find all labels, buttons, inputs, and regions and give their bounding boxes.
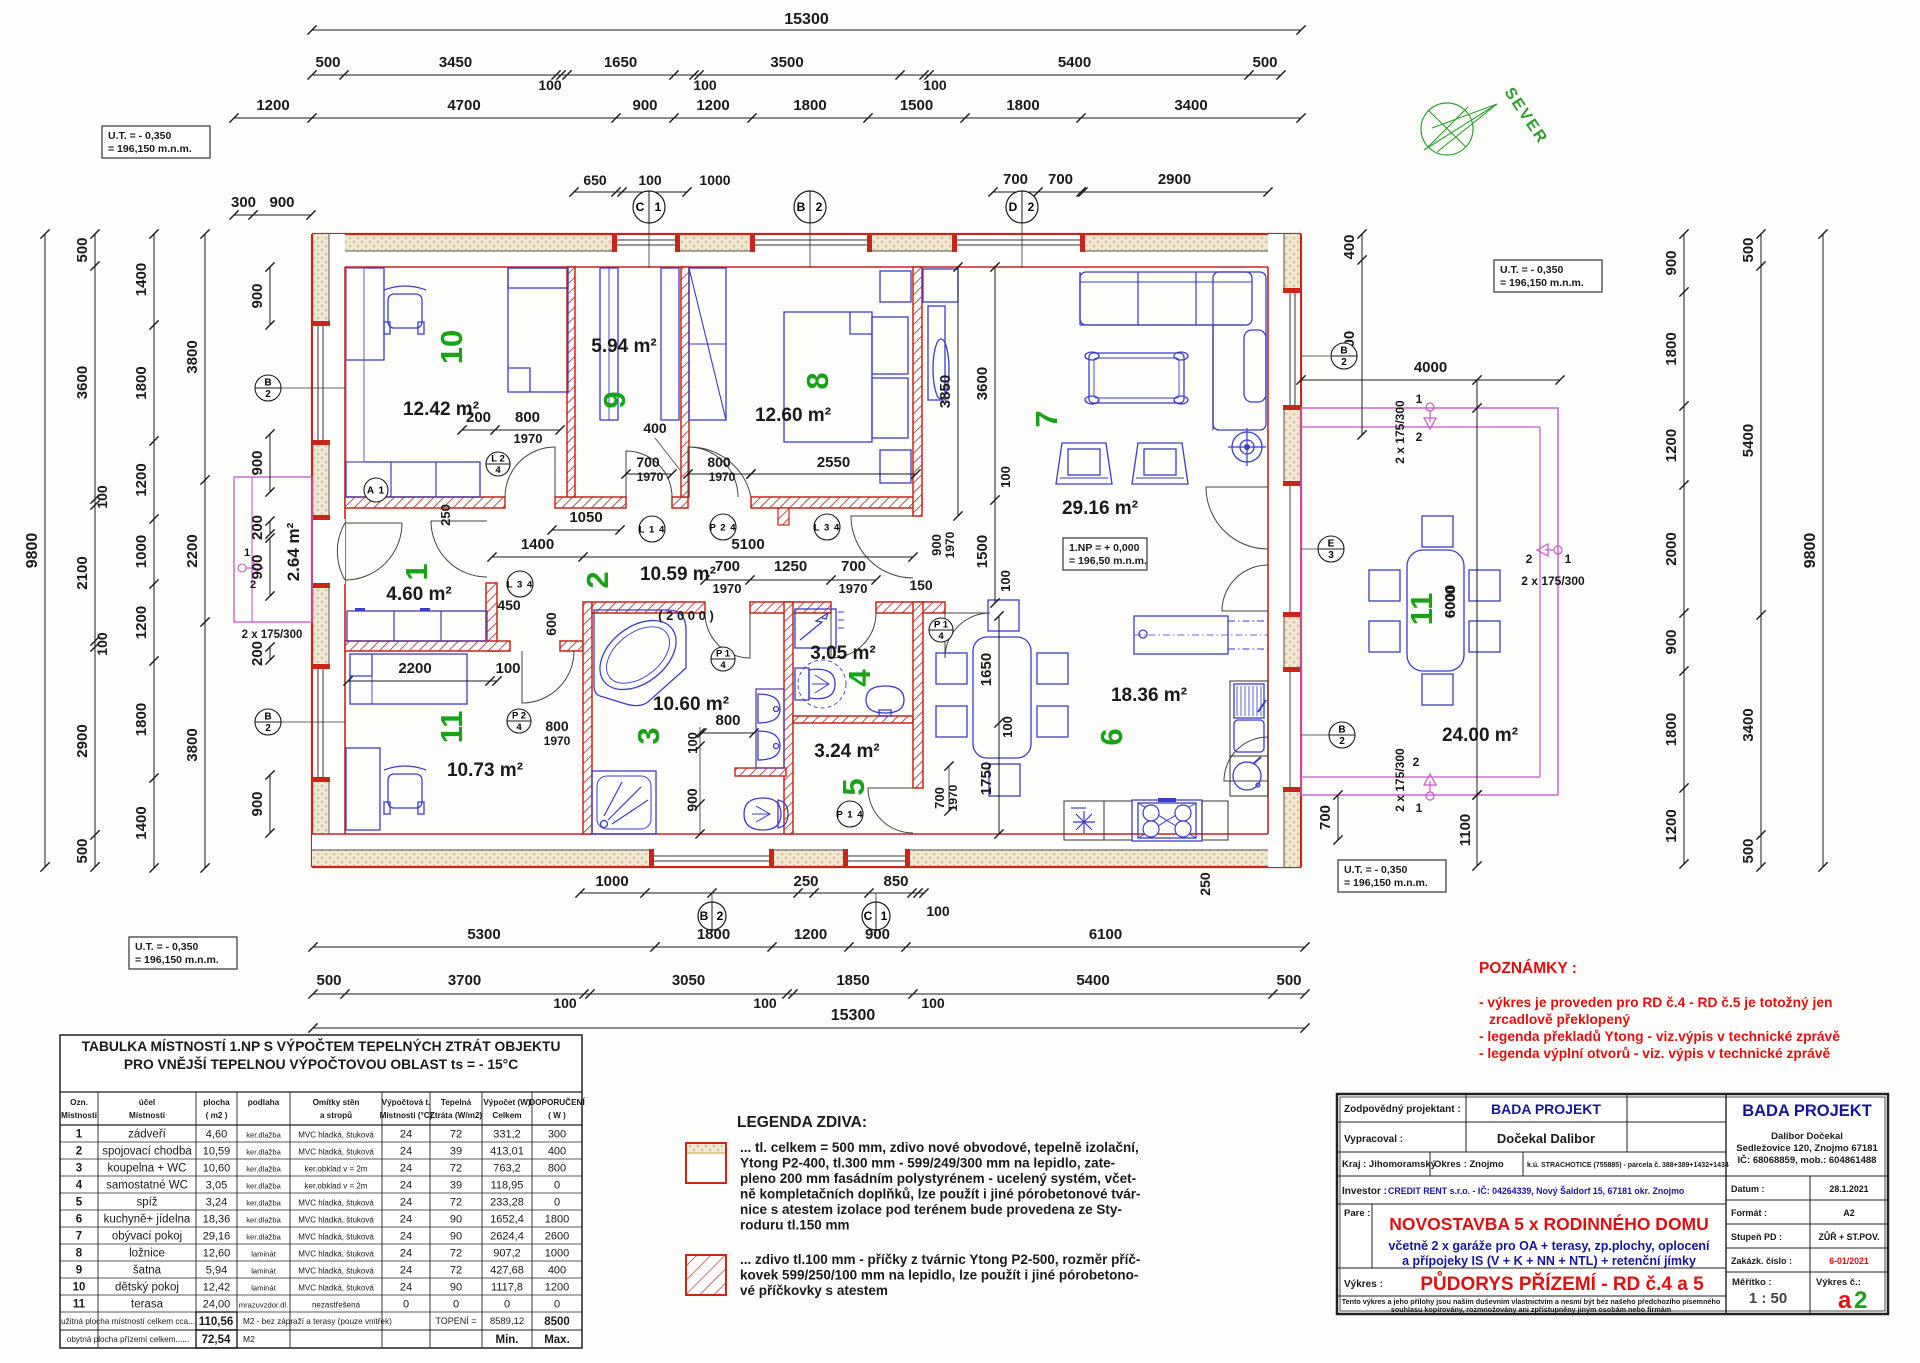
svg-text:100: 100 (94, 485, 110, 509)
svg-text:900: 900 (929, 534, 944, 556)
door/type marker circles (364, 478, 388, 502)
svg-text:= 196,150 m.n.m.: = 196,150 m.n.m. (1344, 877, 1428, 889)
svg-text:700: 700 (1003, 171, 1028, 188)
svg-text:Ozn.: Ozn. (70, 1098, 88, 1107)
svg-text:4: 4 (720, 660, 726, 671)
svg-text:B: B (1338, 725, 1345, 736)
svg-text:10: 10 (73, 1282, 86, 1294)
svg-text:obytná plocha přízemí celkem.: obytná plocha přízemí celkem...... (67, 1335, 189, 1344)
svg-text:laminát: laminát (251, 1250, 276, 1259)
svg-text:900: 900 (249, 450, 266, 475)
svg-text:28.1.2021: 28.1.2021 (1829, 1184, 1868, 1194)
svg-text:6-01/2021: 6-01/2021 (1829, 1256, 1869, 1266)
svg-text:nezastřešená: nezastřešená (312, 1301, 361, 1310)
svg-text:1500: 1500 (974, 535, 991, 568)
svg-text:a: a (1838, 1287, 1852, 1314)
svg-text:MVC hladká, štuková: MVC hladká, štuková (298, 1148, 374, 1157)
1.NP level box (1063, 538, 1147, 570)
wall V2 room9|room8 (681, 267, 689, 497)
svg-text:PRO VNĚJŠÍ TEPELNOU VÝPOČTO: PRO VNĚJŠÍ TEPELNOU VÝPOČTOVOU OBLAST ts… (124, 1055, 518, 1072)
svg-text:4: 4 (516, 722, 522, 733)
svg-text:NOVOSTAVBA 5 x RODINNÉHO DOM: NOVOSTAVBA 5 x RODINNÉHO DOMU (1389, 1213, 1709, 1234)
svg-text:427,68: 427,68 (490, 1265, 524, 1277)
svg-text:2: 2 (265, 389, 271, 400)
svg-text:200: 200 (249, 641, 266, 666)
svg-text:3850: 3850 (937, 375, 954, 408)
kitchen counter right of stove (1202, 801, 1228, 840)
svg-text:0: 0 (554, 1180, 560, 1192)
wall V7 room1 right stub (486, 583, 497, 651)
exterior wall right (1268, 234, 1301, 867)
svg-text:500: 500 (74, 237, 91, 262)
svg-text:72: 72 (450, 1163, 462, 1175)
svg-text:700: 700 (715, 558, 740, 575)
svg-text:P 1: P 1 (716, 649, 731, 660)
svg-text:15300: 15300 (831, 1007, 876, 1024)
svg-text:4.60 m²: 4.60 m² (386, 584, 451, 605)
svg-text:18.36 m²: 18.36 m² (1111, 685, 1187, 706)
svg-text:ně kompletačních doplňků, lze: ně kompletačních doplňků, lze použít i j… (740, 1187, 1141, 1202)
bathtub (594, 610, 686, 706)
svg-text:100: 100 (495, 660, 520, 677)
svg-text:72: 72 (450, 1129, 462, 1141)
door arc: kitchen to terrace (1224, 737, 1268, 781)
svg-text:8589,12: 8589,12 (490, 1316, 524, 1327)
svg-text:D: D (1009, 200, 1018, 214)
svg-text:700: 700 (932, 787, 947, 809)
svg-text:účel: účel (139, 1098, 155, 1107)
svg-text:koupelna + WC: koupelna + WC (108, 1163, 187, 1175)
svg-text:spíž: spíž (136, 1197, 157, 1209)
svg-text:3800: 3800 (184, 340, 201, 373)
living armchair 2 (1132, 443, 1188, 484)
svg-text:12,60: 12,60 (203, 1248, 231, 1260)
svg-text:413,01: 413,01 (490, 1146, 524, 1158)
svg-text:Sedležovice 120, Znojmo 67181: Sedležovice 120, Znojmo 67181 (1736, 1143, 1878, 1154)
living sofa L-shape (1080, 272, 1252, 325)
svg-text:11: 11 (73, 1299, 86, 1311)
room9 shelf right (661, 268, 679, 420)
bath toilet (744, 798, 781, 830)
svg-text:( m2 ): ( m2 ) (206, 1111, 228, 1120)
svg-text:1970: 1970 (514, 431, 543, 446)
svg-text:0: 0 (554, 1299, 560, 1311)
svg-text:( 2 0 0 0 ): ( 2 0 0 0 ) (658, 608, 714, 623)
svg-text:300: 300 (548, 1129, 566, 1141)
svg-text:700: 700 (1048, 171, 1073, 188)
svg-text:1200: 1200 (133, 606, 150, 639)
svg-text:1: 1 (1416, 801, 1423, 815)
svg-text:1800: 1800 (697, 926, 730, 943)
svg-text:900: 900 (269, 194, 294, 211)
svg-text:900: 900 (1663, 250, 1680, 275)
svg-text:B: B (700, 909, 709, 923)
wall H2 seg2 (750, 602, 831, 613)
svg-text:200: 200 (466, 409, 491, 426)
svg-text:1970: 1970 (709, 470, 736, 484)
svg-text:1: 1 (1565, 552, 1572, 566)
svg-text:Místnosti: Místnosti (61, 1111, 97, 1120)
svg-text:k.ú. STRACHOTICE (755885) - pa: k.ú. STRACHOTICE (755885) - parcela č. 3… (1527, 1162, 1729, 1169)
exterior wall left (312, 234, 345, 867)
svg-text:900: 900 (684, 788, 700, 812)
svg-text:1200: 1200 (545, 1282, 569, 1294)
svg-text:233,28: 233,28 (490, 1197, 524, 1209)
svg-text:obývací pokoj: obývací pokoj (112, 1231, 182, 1243)
door arc: entry door into room 1 (337, 523, 402, 580)
svg-text:souhlasu kopírovány, rozmnožov: souhlasu kopírovány, rozmnožovány ani zp… (1391, 1305, 1671, 1314)
svg-text:B: B (1340, 346, 1347, 357)
svg-text:1970: 1970 (713, 581, 742, 596)
svg-text:331,2: 331,2 (493, 1129, 521, 1141)
room1 shoe bench (347, 611, 487, 641)
svg-text:2200: 2200 (184, 534, 201, 567)
svg-text:U.T. = - 0,350: U.T. = - 0,350 (1344, 864, 1407, 876)
svg-text:5300: 5300 (467, 926, 500, 943)
svg-text:10.73 m²: 10.73 m² (447, 760, 523, 781)
svg-text:1800: 1800 (793, 97, 826, 114)
WC toilet (795, 668, 809, 700)
svg-text:250: 250 (1197, 872, 1213, 896)
svg-text:3: 3 (1328, 550, 1334, 561)
svg-text:24: 24 (400, 1163, 412, 1175)
svg-text:3.05 m²: 3.05 m² (810, 643, 875, 664)
svg-text:800: 800 (707, 454, 731, 470)
left small chains (269, 267, 271, 325)
svg-text:2: 2 (816, 200, 823, 214)
kitchen stove (1132, 800, 1202, 841)
svg-text:1970: 1970 (943, 531, 957, 558)
svg-text:MVC hladká, štuková: MVC hladká, štuková (298, 1199, 374, 1208)
svg-text:500: 500 (74, 838, 91, 863)
svg-text:Okres : Znojmo: Okres : Znojmo (1434, 1159, 1504, 1170)
top dimension chains (312, 29, 1301, 31)
title block (1337, 1094, 1888, 1314)
svg-text:CREDIT RENT s.r.o. - IČ: 04264: CREDIT RENT s.r.o. - IČ: 04264339, Nový … (1388, 1185, 1685, 1196)
kitchen dining table + chairs (973, 637, 1031, 758)
svg-text:2 x 175/300: 2 x 175/300 (242, 629, 303, 641)
svg-text:Tepelná: Tepelná (441, 1098, 472, 1107)
svg-text:ložnice: ložnice (129, 1248, 165, 1260)
svg-text:2200: 2200 (398, 660, 431, 677)
svg-text:2: 2 (1028, 200, 1035, 214)
svg-text:72: 72 (450, 1248, 462, 1260)
svg-text:DOPORUČENÍ: DOPORUČENÍ (529, 1096, 585, 1107)
room10 chair (388, 294, 422, 328)
svg-text:7: 7 (1029, 410, 1064, 427)
svg-text:1200: 1200 (696, 97, 729, 114)
exterior wall bottom (312, 834, 1301, 867)
kitchen counter middle (1104, 801, 1132, 840)
svg-text:= 196,150 m.n.m.: = 196,150 m.n.m. (135, 954, 219, 966)
svg-text:600: 600 (543, 612, 559, 636)
svg-text:90: 90 (450, 1282, 462, 1294)
WC boiler + arrow (795, 609, 836, 648)
svg-text:1970: 1970 (839, 581, 868, 596)
wall H3 room11 top right part (560, 641, 583, 651)
svg-text:... tl. celkem = 500 mm, zdivo: ... tl. celkem = 500 mm, zdivo nové obvo… (740, 1140, 1139, 1155)
svg-text:2: 2 (1341, 357, 1347, 368)
svg-text:5,94: 5,94 (206, 1265, 227, 1277)
svg-text:1 : 50: 1 : 50 (1749, 1290, 1787, 1307)
svg-text:24: 24 (400, 1265, 412, 1277)
svg-text:- výkres je proveden pro RD č.: - výkres je proveden pro RD č.4 - RD č.5… (1479, 995, 1832, 1010)
svg-text:2 x 175/300: 2 x 175/300 (1393, 748, 1407, 812)
svg-text:1652,4: 1652,4 (490, 1214, 524, 1226)
svg-text:POZNÁMKY :: POZNÁMKY : (1479, 960, 1577, 977)
wall V6 WC+spiz|kitchen (913, 602, 923, 788)
wall V5 bath|WC+spiz (784, 602, 793, 834)
svg-text:... zdivo tl.100 mm - příčky z: ... zdivo tl.100 mm - příčky z tvárnic Y… (740, 1252, 1140, 1267)
svg-text:3800: 3800 (184, 728, 201, 761)
svg-text:1200: 1200 (256, 97, 289, 114)
svg-text:2550: 2550 (817, 454, 850, 471)
svg-text:1400: 1400 (521, 536, 554, 553)
svg-text:2: 2 (76, 1146, 82, 1158)
svg-text:BADA PROJEKT: BADA PROJEKT (1491, 1101, 1601, 1117)
svg-text:1200: 1200 (1663, 809, 1680, 842)
svg-text:5400: 5400 (1740, 424, 1757, 457)
svg-text:500: 500 (1252, 54, 1277, 71)
svg-text:MVC hladká, štuková: MVC hladká, štuková (298, 1131, 374, 1140)
door arc: room1 to corridor (V7) (431, 521, 487, 577)
svg-text:1800: 1800 (1006, 97, 1039, 114)
svg-text:ZŮŘ + ST.POV.: ZŮŘ + ST.POV. (1818, 1231, 1879, 1242)
right axis circles (1301, 355, 1330, 357)
svg-text:( W ): ( W ) (548, 1111, 566, 1120)
room11 chair (388, 774, 422, 808)
svg-text:1800: 1800 (133, 703, 150, 736)
svg-text:72: 72 (450, 1197, 462, 1209)
svg-text:a přípojeky IS (V + K + NN + N: a přípojeky IS (V + K + NN + NTL) + rete… (1402, 1254, 1696, 1268)
svg-text:900: 900 (865, 926, 890, 943)
svg-text:72,54: 72,54 (202, 1334, 231, 1346)
svg-text:5400: 5400 (1058, 54, 1091, 71)
svg-text:IČ: 68068859, mob.: 604861488: IČ: 68068859, mob.: 604861488 (1738, 1154, 1877, 1166)
wall H1 seg2 (under rooms 10/9/8) (555, 497, 626, 508)
svg-text:1250: 1250 (774, 558, 807, 575)
svg-text:Dalibor Dočekal: Dalibor Dočekal (1771, 1131, 1843, 1142)
door arc: door to room 10 (505, 447, 555, 497)
living armchair 1 (1056, 443, 1112, 484)
svg-text:39: 39 (450, 1146, 462, 1158)
svg-text:4: 4 (938, 631, 944, 642)
svg-text:E: E (1328, 539, 1335, 550)
svg-text:Stupeň PD :: Stupeň PD : (1731, 1232, 1782, 1242)
svg-text:1000: 1000 (595, 873, 628, 890)
svg-text:Ytong P2-400, tl.300 mm - 599/: Ytong P2-400, tl.300 mm - 599/249/300 mm… (740, 1156, 1115, 1171)
svg-text:2: 2 (1526, 552, 1533, 566)
svg-text:1100: 1100 (1457, 814, 1474, 847)
svg-text:6: 6 (76, 1214, 82, 1226)
svg-text:Min.: Min. (496, 1334, 519, 1346)
svg-text:1: 1 (881, 909, 888, 923)
svg-text:1: 1 (655, 200, 662, 214)
svg-text:3: 3 (631, 727, 666, 744)
svg-text:ker.dlažba: ker.dlažba (246, 1199, 281, 1208)
svg-text:15300: 15300 (784, 11, 829, 28)
svg-text:Výkres :: Výkres : (1344, 1279, 1383, 1290)
svg-text:B: B (797, 200, 806, 214)
wall V4 room11|bath (583, 602, 592, 834)
svg-text:9800: 9800 (24, 533, 41, 569)
svg-text:L 2: L 2 (491, 454, 505, 465)
kitchen island bench (1134, 616, 1228, 654)
svg-text:2: 2 (1413, 755, 1420, 769)
wall V1 room10|room9 (567, 267, 575, 497)
svg-text:= 196,150 m.n.m.: = 196,150 m.n.m. (108, 143, 192, 155)
svg-text:ker.dlažba: ker.dlažba (246, 1182, 281, 1191)
svg-text:dětský pokoj: dětský pokoj (115, 1282, 179, 1294)
svg-text:2: 2 (1339, 736, 1345, 747)
axis circles C1 B2 D2 (648, 223, 650, 268)
svg-text:1200: 1200 (794, 926, 827, 943)
left axis circles B/2 (281, 387, 345, 389)
svg-text:0: 0 (453, 1299, 459, 1311)
window W1 top (room 9) (616, 235, 676, 251)
svg-text:700: 700 (841, 558, 866, 575)
svg-text:250: 250 (438, 504, 453, 526)
svg-text:= 196,50 m.n.m.: = 196,50 m.n.m. (1069, 555, 1147, 567)
svg-text:A 1: A 1 (367, 486, 385, 497)
svg-text:5400: 5400 (1076, 972, 1109, 989)
svg-text:700: 700 (636, 454, 660, 470)
svg-text:2.64 m²: 2.64 m² (284, 522, 303, 581)
svg-text:M2: M2 (243, 1334, 255, 1344)
svg-text:U.T. = - 0,350: U.T. = - 0,350 (1500, 264, 1563, 276)
svg-text:24: 24 (400, 1180, 412, 1192)
svg-text:U.T. = - 0,350: U.T. = - 0,350 (108, 130, 171, 142)
bath double washbasin (756, 689, 784, 768)
svg-text:Místnosti: Místnosti (129, 1111, 165, 1120)
compass SEVER (1421, 103, 1473, 155)
svg-text:1800: 1800 (1663, 713, 1680, 746)
svg-text:10.59 m²: 10.59 m² (640, 564, 716, 585)
svg-text:užitná plocha místností celke: užitná plocha místností celkem cca... (61, 1317, 195, 1326)
svg-text:1750: 1750 (978, 762, 995, 795)
right wall window and terrace doors (1284, 292, 1300, 406)
wall H2 seg1 bath top (592, 602, 705, 613)
svg-text:1.NP = + 0,000: 1.NP = + 0,000 (1069, 542, 1140, 554)
svg-text:400: 400 (548, 1265, 566, 1277)
svg-text:24: 24 (400, 1282, 412, 1294)
svg-text:100: 100 (753, 995, 777, 1011)
svg-text:2100: 2100 (74, 556, 91, 589)
room9 shelf left (600, 268, 618, 420)
svg-text:3600: 3600 (974, 367, 991, 400)
svg-text:TABULKA MÍSTNOSTÍ 1.NP S VÝ: TABULKA MÍSTNOSTÍ 1.NP S VÝPOČTEM TEPELN… (82, 1037, 561, 1054)
svg-text:10,60: 10,60 (203, 1163, 231, 1175)
svg-text:1800: 1800 (545, 1214, 569, 1226)
svg-text:M2 - bez zápraží a terasy (pou: M2 - bez zápraží a terasy (pouze vnitřek… (243, 1317, 392, 1326)
svg-text:5.94 m²: 5.94 m² (591, 336, 656, 357)
svg-text:800: 800 (515, 409, 540, 426)
svg-text:2: 2 (1416, 430, 1423, 444)
svg-text:1500: 1500 (900, 97, 933, 114)
svg-text:1: 1 (399, 563, 434, 580)
svg-text:MVC hladká, štuková: MVC hladká, štuková (298, 1216, 374, 1225)
kitchen counter bottom row: fridge (1064, 801, 1104, 840)
svg-text:P 2 4: P 2 4 (709, 523, 736, 534)
svg-text:1970: 1970 (544, 734, 571, 748)
wall H1 seg3 (under rooms 10/9/8) (672, 497, 688, 508)
svg-text:laminát: laminát (251, 1267, 276, 1276)
svg-text:100: 100 (923, 77, 947, 93)
svg-text:0: 0 (554, 1197, 560, 1209)
svg-text:100: 100 (538, 77, 562, 93)
svg-text:4,60: 4,60 (206, 1129, 227, 1141)
svg-text:1050: 1050 (569, 509, 602, 526)
svg-text:6: 6 (1094, 728, 1129, 745)
svg-text:118,95: 118,95 (491, 1180, 524, 1192)
svg-text:3: 3 (76, 1163, 82, 1175)
svg-text:200: 200 (249, 515, 266, 540)
svg-text:BADA PROJEKT: BADA PROJEKT (1742, 1102, 1872, 1120)
svg-text:= 196,150 m.n.m.: = 196,150 m.n.m. (1500, 277, 1584, 289)
kitchen interior dims (998, 616, 1000, 834)
svg-text:U.T. = - 0,350: U.T. = - 0,350 (135, 941, 198, 953)
svg-text:700: 700 (1317, 805, 1334, 830)
svg-text:zrcadlově překlopený: zrcadlově překlopený (1489, 1012, 1630, 1027)
svg-text:300: 300 (231, 194, 256, 211)
svg-text:- legenda překladů Ytong - viz: - legenda překladů Ytong - viz.výpis v t… (1479, 1029, 1840, 1044)
svg-text:PŮDORYS PŘÍZEMÍ - RD č.4 a 5: PŮDORYS PŘÍZEMÍ - RD č.4 a 5 (1420, 1272, 1704, 1295)
svg-text:Ztráta (W/m2): Ztráta (W/m2) (430, 1111, 483, 1120)
svg-text:8: 8 (76, 1248, 83, 1260)
svg-text:1650: 1650 (978, 653, 995, 686)
svg-text:2 x 175/300: 2 x 175/300 (1393, 400, 1407, 464)
svg-text:150: 150 (909, 577, 933, 593)
svg-text:800: 800 (715, 712, 740, 729)
svg-text:3050: 3050 (672, 972, 705, 989)
svg-text:Zodpovědný projektant :: Zodpovědný projektant : (1344, 1104, 1461, 1115)
svg-text:400: 400 (1341, 234, 1358, 259)
svg-text:samostatné WC: samostatné WC (106, 1180, 188, 1192)
wall V3 room8|living (913, 267, 922, 516)
door arc: corridor to living room (851, 516, 913, 578)
svg-text:P 1 4: P 1 4 (836, 810, 863, 821)
wall H3 room11 top left part (345, 641, 510, 651)
svg-text:A2: A2 (1843, 1208, 1854, 1218)
svg-text:5: 5 (76, 1197, 83, 1209)
svg-text:laminát: laminát (251, 1284, 276, 1293)
svg-text:MVC hladká, štuková: MVC hladká, štuková (298, 1233, 374, 1242)
svg-text:Investor :: Investor : (1342, 1186, 1387, 1197)
svg-text:Zakázk. číslo :: Zakázk. číslo : (1731, 1256, 1792, 1266)
svg-text:Datum :: Datum : (1731, 1184, 1765, 1194)
svg-text:1200: 1200 (133, 463, 150, 496)
svg-text:ker.obklad v = 2m: ker.obklad v = 2m (305, 1165, 368, 1174)
svg-text:LEGENDA ZDIVA:: LEGENDA ZDIVA: (737, 1114, 867, 1131)
svg-text:39: 39 (450, 1180, 462, 1192)
svg-text:plocha: plocha (203, 1098, 230, 1107)
svg-text:Celkem: Celkem (492, 1111, 521, 1120)
svg-text:Max.: Max. (544, 1334, 570, 1346)
door arc: door to room 8 (688, 447, 751, 497)
svg-text:Formát :: Formát : (1731, 1208, 1767, 1218)
svg-text:6100: 6100 (1089, 926, 1122, 943)
svg-text:900: 900 (249, 554, 266, 579)
svg-text:a stropů: a stropů (320, 1110, 352, 1120)
svg-text:4700: 4700 (447, 97, 480, 114)
U.T. level boxes (102, 126, 210, 158)
svg-text:24: 24 (400, 1146, 412, 1158)
svg-text:1970: 1970 (637, 470, 664, 484)
living interior dims (957, 267, 959, 516)
svg-text:šatna: šatna (133, 1265, 162, 1277)
svg-text:2624,4: 2624,4 (490, 1231, 524, 1243)
svg-text:Pare :: Pare : (1344, 1208, 1370, 1219)
